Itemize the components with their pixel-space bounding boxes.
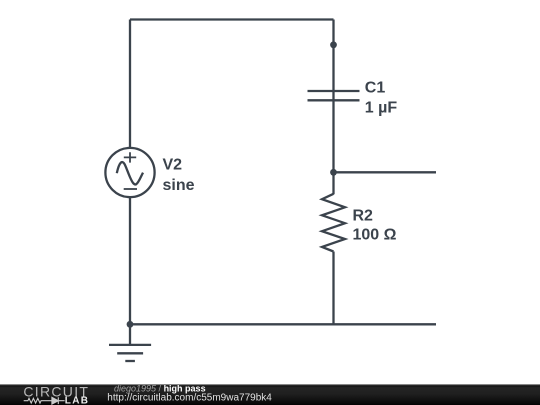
V2 sine waveform xyxy=(117,162,143,184)
node junction dot middle xyxy=(330,169,337,176)
ground lead xyxy=(129,324,131,345)
ground bar 3 xyxy=(125,360,135,362)
wire right vertical (top wire through C1 to node) xyxy=(332,20,334,173)
footer bar xyxy=(0,384,540,405)
svg-text:http://circuitlab.com/c55m9wa7: http://circuitlab.com/c55m9wa779bk4 xyxy=(107,392,272,403)
ground bar 2 xyxy=(117,352,143,354)
resistor R2 zigzag xyxy=(322,194,345,252)
svg-text:1 µF: 1 µF xyxy=(365,100,398,117)
svg-text:C1: C1 xyxy=(365,80,386,97)
wire resistor top lead xyxy=(332,172,334,194)
wire left vertical lower (V2 to bottom wire) xyxy=(129,198,131,325)
svg-text:V2: V2 xyxy=(163,157,183,174)
logo resistor zigzag and wire xyxy=(24,398,52,403)
svg-text:R2: R2 xyxy=(353,208,374,225)
capacitor C1 plates xyxy=(308,91,360,100)
wire left vertical upper (top wire to V2) xyxy=(129,20,131,148)
svg-text:100 Ω: 100 Ω xyxy=(353,227,397,244)
node junction dot top xyxy=(330,41,337,48)
wire top horizontal xyxy=(130,18,334,20)
ground bar 1 xyxy=(109,344,151,346)
wire resistor bottom lead xyxy=(332,252,334,325)
V2 minus sign xyxy=(124,188,137,190)
V2 plus sign xyxy=(124,152,136,162)
logo diode xyxy=(52,397,65,404)
svg-text:sine: sine xyxy=(163,177,195,194)
wire bottom horizontal xyxy=(130,323,436,325)
svg-text:LAB: LAB xyxy=(65,395,89,405)
node junction dot bottom xyxy=(127,321,134,328)
wire output horizontal xyxy=(334,171,437,173)
op V2 source circle xyxy=(105,148,154,197)
